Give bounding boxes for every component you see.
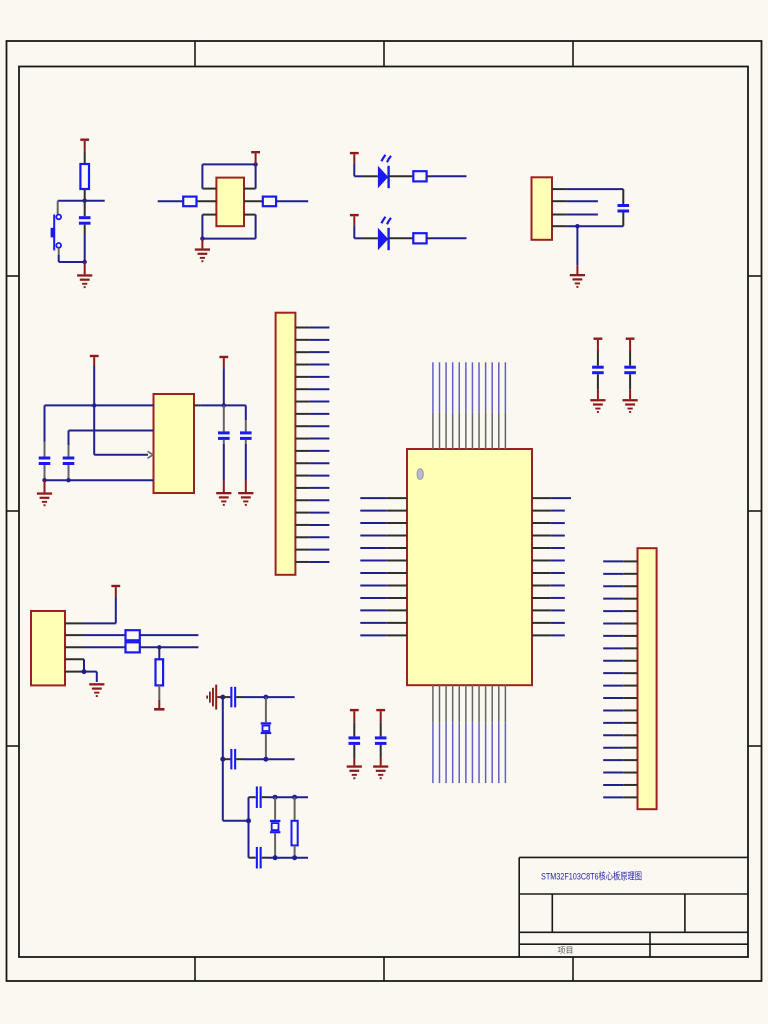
wire LED net bbox=[431, 175, 467, 177]
power VBUS stem bbox=[115, 587, 117, 597]
junction bbox=[273, 855, 278, 860]
wire P1-2 bbox=[567, 200, 598, 202]
push button S1 bbox=[51, 201, 62, 255]
wire OSC out bbox=[269, 857, 309, 859]
wire U3 bottom pin 3 bbox=[445, 685, 447, 783]
power 3V3 output bbox=[219, 356, 228, 368]
wire OSC32 in bbox=[243, 696, 295, 698]
ground bbox=[623, 399, 638, 413]
wire P1-3 bbox=[567, 214, 598, 216]
wire U3 bottom pin 1 bbox=[432, 685, 434, 783]
pin C8 bottom bbox=[380, 745, 382, 758]
pin C2 bottom bbox=[622, 213, 624, 227]
power VCC C10 bbox=[626, 338, 635, 352]
title block bbox=[519, 857, 748, 957]
resistor R3 bbox=[263, 197, 276, 207]
pin P3-20 bbox=[603, 796, 637, 798]
junction bbox=[83, 199, 87, 203]
pin P3-16 bbox=[603, 747, 637, 749]
pin Y1 bottom bbox=[265, 734, 267, 759]
resistor R6 bbox=[126, 642, 140, 652]
connector J1 USB bbox=[31, 611, 65, 685]
pin C7 top bbox=[353, 722, 355, 736]
ground bbox=[373, 765, 388, 779]
pin P3-11 bbox=[603, 685, 637, 687]
pin P2-11 bbox=[295, 450, 329, 452]
wire U3 bottom pin 10 bbox=[491, 685, 493, 783]
IC U1 bbox=[216, 178, 244, 227]
ground stem bbox=[201, 239, 203, 249]
wire top loop bbox=[202, 164, 255, 188]
ground bbox=[590, 399, 605, 413]
LED D2 bbox=[378, 217, 391, 250]
pin J1-2 bbox=[65, 634, 84, 636]
wire U3 top pin 1 bbox=[432, 362, 434, 449]
pin U3 right 11 bbox=[532, 622, 565, 624]
pin P3-9 bbox=[603, 660, 637, 662]
pin P3-3 bbox=[603, 585, 637, 587]
pin Y1 top bbox=[265, 697, 267, 722]
pin C5 top bbox=[223, 405, 225, 431]
pin C11 left bbox=[223, 696, 231, 698]
pin C10 bottom bbox=[629, 374, 631, 389]
pin P3-1 bbox=[603, 560, 637, 562]
wire D+ net bbox=[140, 646, 199, 648]
wire U3 top pin 11 bbox=[498, 362, 500, 449]
wire osc rail bbox=[223, 697, 249, 821]
pin U1 bottom-left bbox=[202, 214, 216, 216]
regulator U2 bbox=[154, 394, 195, 493]
pin Y2 bottom bbox=[274, 833, 276, 857]
pin P2-9 bbox=[295, 425, 329, 427]
pin U3 right 9 bbox=[532, 597, 565, 599]
pin P1-1 bbox=[552, 188, 567, 190]
pin P1-3 bbox=[552, 214, 567, 216]
capacitor C13 bbox=[256, 786, 262, 808]
wire P1-4 ground net bbox=[567, 226, 624, 265]
pin U3 right 12 bbox=[532, 634, 565, 636]
wire ground rail bbox=[45, 479, 154, 481]
ground stem bbox=[380, 758, 382, 765]
capacitor C8 bbox=[375, 736, 387, 745]
pin U3 right 4 bbox=[532, 535, 565, 537]
wire U3 bottom pin 7 bbox=[471, 685, 473, 783]
wire left signal bbox=[158, 200, 184, 202]
wire P1-1 to C2 bbox=[567, 189, 624, 204]
junction bbox=[220, 757, 225, 762]
capacitor C12 bbox=[230, 749, 236, 770]
resistor R2 bbox=[183, 197, 196, 207]
wire U2 pin2 bbox=[69, 431, 154, 446]
ground stem bbox=[597, 389, 599, 399]
wire U3 bottom pin 12 bbox=[504, 685, 506, 783]
wire VBUS bbox=[84, 597, 116, 623]
pin P2-18 bbox=[295, 536, 329, 538]
junction bbox=[222, 403, 226, 407]
wire U3 top pin 6 bbox=[465, 362, 467, 449]
capacitor C4 bbox=[63, 457, 75, 466]
capacitor C14 bbox=[256, 847, 262, 869]
ground bbox=[570, 274, 585, 288]
pin U3 right 7 bbox=[532, 572, 565, 574]
pin U2 enable arrow bbox=[148, 451, 154, 458]
wire power stem bbox=[94, 366, 148, 455]
pin1 marker bbox=[417, 469, 423, 480]
wire power to LED bbox=[354, 225, 362, 238]
wire U3 bottom pin 11 bbox=[498, 685, 500, 783]
pin P2-7 bbox=[295, 401, 329, 403]
pin P2-2 bbox=[295, 339, 329, 341]
pin resistor right bbox=[427, 175, 431, 177]
power VCC LED2 bbox=[350, 214, 359, 225]
pin Y2 top bbox=[274, 797, 276, 820]
pin P2-10 bbox=[295, 438, 329, 440]
wire U2 output net bbox=[200, 405, 246, 420]
pin C3 top bbox=[44, 442, 46, 457]
wire U3 top pin 2 bbox=[438, 362, 440, 449]
pin C4 top bbox=[68, 445, 70, 457]
junction bbox=[292, 795, 297, 800]
pin P2-17 bbox=[295, 524, 329, 526]
pin C9 top bbox=[597, 351, 599, 366]
wire C3 top bbox=[44, 405, 46, 441]
pin P3-14 bbox=[603, 722, 637, 724]
wire U3 bottom pin 2 bbox=[438, 685, 440, 783]
power VBUS bbox=[111, 585, 120, 587]
pin P2-12 bbox=[295, 462, 329, 464]
power VCC C9 bbox=[594, 338, 603, 352]
pin resistor right bbox=[427, 237, 431, 239]
pin C12 right bbox=[236, 758, 243, 760]
MCU U3 STM32F103C8T6 bbox=[407, 449, 532, 685]
pin P2-5 bbox=[295, 376, 329, 378]
power rail stem bbox=[158, 700, 160, 708]
pin P3-15 bbox=[603, 734, 637, 736]
ground stem bbox=[84, 262, 86, 274]
pin P2-4 bbox=[295, 364, 329, 366]
pin C11 right bbox=[236, 696, 243, 698]
pin C9 bottom bbox=[597, 374, 599, 389]
connector P1 bbox=[532, 177, 553, 240]
pin C12 left bbox=[223, 758, 231, 760]
pin R1 bottom bbox=[84, 189, 86, 201]
pin P3-19 bbox=[603, 784, 637, 786]
wire U3 bottom pin 8 bbox=[478, 685, 480, 783]
pin C6 bottom bbox=[245, 440, 247, 444]
ground stem bbox=[629, 389, 631, 399]
wire U3 bottom pin 6 bbox=[465, 685, 467, 783]
pin U3 left 9 bbox=[360, 597, 407, 599]
pin R7 bottom bbox=[158, 685, 160, 700]
wire C6 to ground bbox=[245, 444, 247, 481]
wire U3 top pin 8 bbox=[478, 362, 480, 449]
capacitor C2 bbox=[618, 204, 630, 213]
ground bbox=[77, 274, 92, 288]
junction bbox=[246, 818, 251, 823]
pin U1 bottom-right bbox=[244, 214, 256, 216]
ground bbox=[37, 492, 52, 506]
wire OSC32 out bbox=[243, 758, 295, 760]
pin C7 bottom bbox=[353, 745, 355, 758]
wire U3 top pin 12 bbox=[504, 362, 506, 449]
pin U3 left 12 bbox=[360, 634, 407, 636]
pin U3 left 2 bbox=[360, 510, 407, 512]
pin J1-4 bbox=[65, 658, 84, 660]
pin U3 left 3 bbox=[360, 522, 407, 524]
pin P1-4 bbox=[552, 225, 567, 227]
pin LED D1 anode bbox=[362, 175, 378, 177]
pin U3 right 3 bbox=[532, 522, 565, 524]
pin P2-1 bbox=[295, 327, 329, 329]
ground bbox=[89, 683, 104, 697]
wire U3 top pin 7 bbox=[471, 362, 473, 449]
ground stem bbox=[353, 758, 355, 765]
ground bbox=[238, 492, 253, 506]
capacitor C3 bbox=[39, 457, 51, 466]
wire U3 top pin 3 bbox=[445, 362, 447, 449]
pin R8 top bbox=[294, 797, 296, 821]
pin P2-19 bbox=[295, 549, 329, 551]
pin U3 left 8 bbox=[360, 584, 407, 586]
pin P2-8 bbox=[295, 413, 329, 415]
pin U3 left 7 bbox=[360, 572, 407, 574]
junction bbox=[200, 236, 204, 240]
pin U3 left 6 bbox=[360, 560, 407, 562]
power VCC input bbox=[90, 355, 99, 366]
pin J1-5 bbox=[65, 671, 84, 673]
capacitor C7 bbox=[349, 736, 361, 745]
ground stem bbox=[217, 696, 223, 698]
pin P3-17 bbox=[603, 759, 637, 761]
junction bbox=[92, 403, 96, 407]
pin U1 mid-right bbox=[244, 200, 263, 202]
power VCC C8 bbox=[376, 709, 385, 722]
pin C1 bottom bbox=[84, 225, 86, 234]
pin U3 right 8 bbox=[532, 584, 565, 586]
pin J1-3 bbox=[65, 646, 84, 648]
wire power stem bbox=[223, 368, 225, 405]
pin LED D1 cathode wire bbox=[389, 175, 414, 177]
junction bbox=[42, 478, 46, 482]
junction bbox=[157, 645, 161, 649]
junction bbox=[253, 162, 257, 166]
pin P2-6 bbox=[295, 388, 329, 390]
pin C10 top bbox=[629, 351, 631, 366]
pin C6 top bbox=[245, 420, 247, 431]
pin U2 output bbox=[194, 404, 200, 406]
wire U3 bottom pin 5 bbox=[458, 685, 460, 783]
pin P3-6 bbox=[603, 623, 637, 625]
pin C14 right bbox=[262, 857, 269, 859]
capacitor C11 bbox=[230, 687, 236, 708]
resistor R1 bbox=[80, 164, 89, 189]
wire U3 top pin 10 bbox=[491, 362, 493, 449]
pin C13 right bbox=[262, 796, 269, 798]
pin U3 right 2 bbox=[532, 510, 565, 512]
resistor R7 bbox=[156, 659, 164, 685]
wire U3 top pin 9 bbox=[485, 362, 487, 449]
capacitor C9 bbox=[592, 366, 604, 375]
resistor R5 bbox=[413, 233, 426, 243]
power VCC C7 bbox=[350, 709, 359, 722]
wire osc8 rail bbox=[248, 797, 250, 858]
wire C5 to ground bbox=[223, 444, 225, 481]
resistor R5 bbox=[126, 630, 140, 640]
ground bbox=[216, 492, 231, 506]
pin P2-20 bbox=[295, 561, 329, 563]
wire pin to resistor R1 bbox=[84, 152, 86, 164]
pin U3 right 5 bbox=[532, 547, 565, 549]
wire to pull-up R7 bbox=[158, 647, 160, 659]
pin P3-13 bbox=[603, 709, 637, 711]
ground bbox=[195, 248, 210, 262]
pin U1 top-right bbox=[244, 188, 256, 190]
pin C5 bottom bbox=[223, 440, 225, 444]
wire power to LED bbox=[354, 163, 362, 176]
ground stem bbox=[576, 265, 578, 274]
pin P3-10 bbox=[603, 672, 637, 674]
pin U3 left 11 bbox=[360, 622, 407, 624]
pin LED D2 cathode wire bbox=[389, 237, 414, 239]
pin P2-14 bbox=[295, 487, 329, 489]
pin C4 bottom bbox=[68, 465, 70, 480]
ground stem bbox=[245, 481, 247, 492]
pin P3-18 bbox=[603, 772, 637, 774]
wire node reset bbox=[58, 200, 105, 202]
capacitor C5 bbox=[218, 431, 230, 440]
LED D1 bbox=[378, 155, 391, 188]
pin U3 left 5 bbox=[360, 547, 407, 549]
junction bbox=[263, 757, 268, 762]
pin U1 top-left bbox=[202, 188, 216, 190]
pin P3-8 bbox=[603, 647, 637, 649]
pin C1 top bbox=[84, 201, 86, 217]
connector P2 header bbox=[276, 313, 296, 575]
pin U3 left 10 bbox=[360, 609, 407, 611]
wire D- net bbox=[140, 634, 199, 636]
wire U3 bottom pin 9 bbox=[485, 685, 487, 783]
pin R8 bottom bbox=[294, 845, 296, 857]
junction bbox=[220, 695, 225, 700]
wire right signal bbox=[276, 200, 308, 202]
pin U3 right 1 bbox=[532, 497, 571, 499]
resistor R8 bbox=[292, 821, 298, 846]
wire OSC in bbox=[269, 796, 309, 798]
pin U3 right 10 bbox=[532, 609, 565, 611]
capacitor C6 bbox=[240, 431, 252, 440]
capacitor C1 bbox=[79, 216, 91, 225]
pin P2-15 bbox=[295, 499, 329, 501]
ground rotated bbox=[206, 685, 217, 710]
junction bbox=[263, 695, 268, 700]
pin P3-5 bbox=[603, 610, 637, 612]
wire S1 to ground rail bbox=[59, 255, 85, 262]
power bar bbox=[154, 708, 164, 711]
crystal Y1 bbox=[261, 722, 272, 734]
ground stem bbox=[44, 480, 46, 492]
resistor R4 bbox=[413, 171, 426, 181]
junction bbox=[83, 260, 87, 264]
pin P2-3 bbox=[295, 351, 329, 353]
wire bottom loop bbox=[202, 215, 255, 239]
pin U3 left 1 bbox=[360, 497, 407, 499]
pin P3-12 bbox=[603, 697, 637, 699]
pin P3-7 bbox=[603, 635, 637, 637]
pin P3-2 bbox=[603, 573, 637, 575]
junction bbox=[273, 795, 278, 800]
pin U3 left 4 bbox=[360, 535, 407, 537]
wire U3 top pin 5 bbox=[458, 362, 460, 449]
power VCC LED1 bbox=[350, 152, 359, 163]
wire D- to R5 bbox=[84, 634, 126, 636]
svg-text:项目: 项目 bbox=[558, 946, 574, 955]
svg-text:STM32F103C8T6核心板原理图: STM32F103C8T6核心板原理图 bbox=[541, 871, 642, 883]
pin LED D2 anode bbox=[362, 237, 378, 239]
pin U1 mid-left bbox=[197, 200, 217, 202]
pin C13 left bbox=[249, 796, 256, 798]
junction bbox=[66, 478, 70, 482]
junction bbox=[575, 224, 579, 228]
pin C14 left bbox=[249, 857, 256, 859]
ground bbox=[347, 765, 362, 779]
power VCC button circuit bbox=[80, 139, 89, 152]
pin U3 right 6 bbox=[532, 560, 565, 562]
power VCC U1 bbox=[251, 151, 260, 164]
junction bbox=[292, 855, 297, 860]
pin C8 top bbox=[380, 722, 382, 736]
wire LED net bbox=[431, 237, 467, 239]
wire U2 input top bbox=[45, 404, 154, 406]
pin P2-13 bbox=[295, 475, 329, 477]
junction bbox=[82, 669, 87, 674]
wire J1 shield ground bbox=[84, 659, 97, 682]
capacitor C10 bbox=[624, 366, 636, 375]
pin J1-1 bbox=[65, 622, 84, 624]
pin P2-16 bbox=[295, 512, 329, 514]
pin C3 bottom bbox=[44, 465, 46, 480]
ground stem bbox=[223, 481, 225, 492]
pin P3-4 bbox=[603, 598, 637, 600]
crystal Y2 bbox=[270, 820, 281, 834]
wire U3 bottom pin 4 bbox=[452, 685, 454, 783]
wire D+ to R6 bbox=[84, 646, 126, 648]
connector P3 header bbox=[638, 548, 657, 809]
pin P1-2 bbox=[552, 200, 567, 202]
wire U3 top pin 4 bbox=[452, 362, 454, 449]
wire C1 to ground rail bbox=[84, 234, 86, 262]
